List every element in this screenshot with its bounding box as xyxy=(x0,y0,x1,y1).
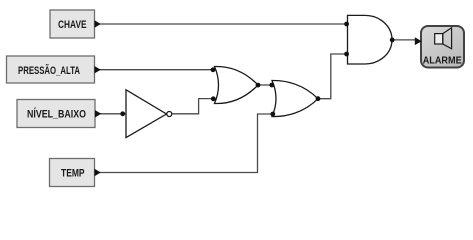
svg-text:NÍVEL_BAIXO: NÍVEL_BAIXO xyxy=(27,108,86,121)
wire NOT output to OR1 bottom input xyxy=(173,99,214,114)
junction dot AND input B xyxy=(344,52,349,57)
junction dot AND output xyxy=(390,38,395,43)
input port PRESSAO_ALTA xyxy=(7,56,101,83)
wire PRESSAO_ALTA to OR1 top input xyxy=(96,69,213,71)
AND gate U4 xyxy=(348,15,393,64)
svg-text:CHAVE: CHAVE xyxy=(58,19,87,31)
junction dot OR1 input B xyxy=(211,96,216,101)
input port TEMP xyxy=(50,159,101,187)
junction dot OR2 input B xyxy=(270,112,275,117)
junction dot OR2 input A xyxy=(269,83,274,88)
junction dot OR2 output xyxy=(316,96,321,101)
input port NIVEL_BAIXO xyxy=(17,100,101,128)
junction dot AND input A xyxy=(344,22,349,27)
junction dot NOT input xyxy=(120,111,125,116)
junction dot OR1 input A xyxy=(211,67,216,72)
OR gate U2 (inputs PRESSAO_ALTA, NOT output) xyxy=(215,66,259,103)
wire OR2 output to AND bottom input xyxy=(318,54,347,99)
wire NIVEL_BAIXO to NOT input xyxy=(95,113,126,115)
wire OR1 output to OR2 top input xyxy=(258,84,272,86)
junction dot OR1 output xyxy=(256,83,261,88)
wire TEMP to OR2 bottom input xyxy=(95,114,273,173)
wire CHAVE to AND top input xyxy=(95,23,346,25)
svg-text:TEMP: TEMP xyxy=(61,168,85,180)
input port CHAVE xyxy=(50,10,101,38)
svg-text:PRESSÃO_ALTA: PRESSÃO_ALTA xyxy=(18,64,80,77)
svg-text:ALARME: ALARME xyxy=(423,55,462,66)
wire AND output to ALARME xyxy=(392,39,417,41)
output device ALARME xyxy=(415,26,464,68)
OR gate U3 (inputs OR1 output, TEMP) xyxy=(272,80,318,116)
NOT gate U1 xyxy=(126,90,172,138)
